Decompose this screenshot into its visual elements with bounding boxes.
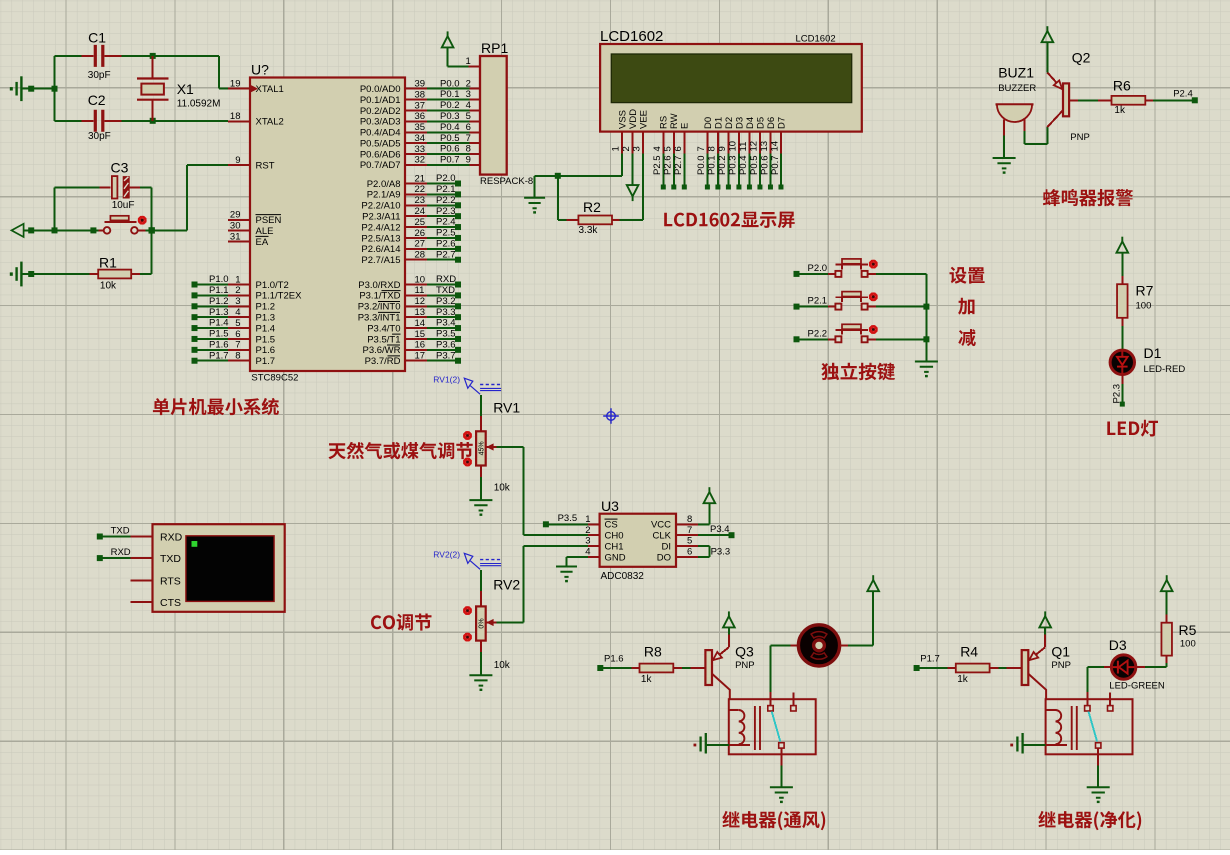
- svg-text:9: 9: [466, 155, 471, 166]
- svg-text:DO: DO: [657, 552, 671, 563]
- svg-text:12: 12: [749, 141, 760, 152]
- svg-text:17: 17: [415, 351, 426, 362]
- svg-text:P2.6/A14: P2.6/A14: [361, 244, 400, 255]
- svg-text:19: 19: [230, 79, 241, 90]
- svg-text:14: 14: [415, 318, 426, 329]
- svg-text:XTAL1: XTAL1: [256, 84, 284, 95]
- svg-text:P0.2: P0.2: [440, 100, 460, 111]
- svg-text:7: 7: [687, 525, 692, 536]
- svg-text:R6: R6: [1113, 78, 1131, 94]
- svg-text:1: 1: [611, 146, 622, 151]
- svg-text:P2.2: P2.2: [436, 195, 456, 206]
- svg-text:D1: D1: [1144, 345, 1162, 361]
- svg-text:P3.3: P3.3: [436, 307, 456, 318]
- svg-text:RESPACK-8: RESPACK-8: [480, 176, 533, 187]
- svg-text:P1.1: P1.1: [209, 285, 229, 296]
- svg-text:30pF: 30pF: [88, 70, 111, 81]
- svg-text:3: 3: [632, 146, 643, 151]
- svg-text:P3.3/INT1: P3.3/INT1: [358, 312, 401, 323]
- svg-text:X1: X1: [177, 81, 194, 97]
- svg-text:RST: RST: [256, 160, 275, 171]
- svg-text:P0.4/AD4: P0.4/AD4: [360, 128, 401, 139]
- svg-text:4: 4: [466, 100, 471, 111]
- svg-text:4: 4: [585, 547, 590, 558]
- svg-text:1k: 1k: [957, 674, 969, 685]
- svg-text:P1.2: P1.2: [256, 302, 276, 313]
- svg-text:XTAL2: XTAL2: [256, 117, 284, 128]
- svg-text:RV1: RV1: [493, 400, 520, 416]
- svg-text:P2.1: P2.1: [436, 184, 456, 195]
- svg-text:6: 6: [466, 122, 471, 133]
- svg-text:18: 18: [230, 111, 241, 122]
- svg-text:P3.1/TXD: P3.1/TXD: [359, 291, 400, 302]
- svg-text:30: 30: [230, 221, 241, 232]
- svg-text:RTS: RTS: [160, 576, 181, 588]
- svg-text:E: E: [680, 123, 691, 129]
- svg-text:3: 3: [235, 296, 240, 307]
- svg-text:P1.4: P1.4: [256, 323, 276, 334]
- svg-text:P3.4/T0: P3.4/T0: [367, 323, 400, 334]
- svg-text:P2.0: P2.0: [436, 173, 456, 184]
- svg-text:P1.5: P1.5: [209, 329, 229, 340]
- svg-text:BUZ1: BUZ1: [998, 64, 1034, 80]
- svg-text:31: 31: [230, 231, 241, 242]
- svg-text:10k: 10k: [494, 483, 511, 494]
- svg-text:P0.2: P0.2: [717, 155, 728, 175]
- svg-text:P1.6: P1.6: [209, 339, 229, 350]
- svg-text:P2.6: P2.6: [436, 238, 456, 249]
- svg-text:RV1(2): RV1(2): [433, 375, 460, 385]
- svg-text:D5: D5: [755, 117, 766, 129]
- svg-text:5: 5: [662, 146, 673, 151]
- svg-text:P3.4: P3.4: [436, 318, 456, 329]
- svg-text:6: 6: [673, 146, 684, 151]
- svg-text:28: 28: [415, 250, 426, 261]
- svg-text:5: 5: [466, 111, 471, 122]
- svg-text:P1.1/T2EX: P1.1/T2EX: [256, 291, 303, 302]
- svg-text:5: 5: [687, 536, 692, 547]
- svg-text:RV2: RV2: [493, 577, 520, 593]
- svg-text:100: 100: [1180, 639, 1196, 650]
- svg-text:P1.7: P1.7: [256, 356, 276, 367]
- svg-text:C2: C2: [88, 92, 106, 108]
- svg-text:D2: D2: [724, 117, 735, 129]
- svg-text:P0.7: P0.7: [770, 155, 781, 175]
- svg-text:21: 21: [415, 173, 426, 184]
- svg-text:12: 12: [415, 296, 426, 307]
- svg-text:LED-RED: LED-RED: [1144, 364, 1186, 375]
- svg-text:Q2: Q2: [1072, 50, 1091, 66]
- svg-text:1k: 1k: [641, 674, 653, 685]
- svg-text:PNP: PNP: [1051, 660, 1071, 671]
- svg-text:P0.2/AD2: P0.2/AD2: [360, 106, 401, 117]
- svg-text:1: 1: [585, 514, 590, 525]
- svg-text:P1.3: P1.3: [209, 307, 229, 318]
- svg-text:STC89C52: STC89C52: [251, 373, 298, 384]
- svg-text:P3.2: P3.2: [436, 296, 456, 307]
- svg-text:U3: U3: [601, 498, 619, 514]
- svg-text:8: 8: [707, 146, 718, 151]
- svg-text:33: 33: [415, 144, 426, 155]
- svg-text:37: 37: [415, 100, 426, 111]
- svg-text:VSS: VSS: [618, 110, 629, 129]
- svg-text:P0.0: P0.0: [696, 155, 707, 175]
- svg-text:P2.3: P2.3: [1111, 384, 1122, 404]
- svg-text:P0.1/AD1: P0.1/AD1: [360, 95, 401, 106]
- svg-text:P2.5/A13: P2.5/A13: [361, 233, 400, 244]
- svg-text:P2.7: P2.7: [673, 155, 684, 175]
- svg-text:P2.6: P2.6: [663, 155, 674, 175]
- svg-text:D3: D3: [734, 117, 745, 129]
- svg-text:TXD: TXD: [160, 553, 181, 565]
- svg-text:LCD1602: LCD1602: [600, 28, 663, 45]
- svg-text:P1.7: P1.7: [920, 654, 940, 665]
- svg-text:2: 2: [235, 285, 240, 296]
- svg-text:P1.5: P1.5: [256, 334, 276, 345]
- svg-text:P1.6: P1.6: [604, 654, 624, 665]
- svg-text:P2.7: P2.7: [436, 249, 456, 260]
- svg-text:2: 2: [585, 525, 590, 536]
- svg-text:U?: U?: [251, 62, 269, 78]
- svg-text:9: 9: [717, 146, 728, 151]
- svg-text:32: 32: [415, 155, 426, 166]
- svg-text:P1.7: P1.7: [209, 350, 229, 361]
- svg-text:P2.4: P2.4: [436, 217, 456, 228]
- svg-text:36: 36: [415, 111, 426, 122]
- svg-text:P0.6: P0.6: [759, 155, 770, 175]
- svg-text:5: 5: [235, 318, 240, 329]
- svg-text:10: 10: [728, 141, 739, 152]
- svg-text:RW: RW: [669, 113, 680, 129]
- svg-text:13: 13: [415, 307, 426, 318]
- svg-text:P3.0/RXD: P3.0/RXD: [358, 280, 400, 291]
- svg-text:P2.1: P2.1: [808, 296, 828, 307]
- svg-text:8: 8: [687, 514, 692, 525]
- svg-text:RV2(2): RV2(2): [433, 550, 460, 560]
- svg-text:C3: C3: [111, 159, 129, 175]
- svg-text:PNP: PNP: [735, 660, 755, 671]
- svg-text:P3.5: P3.5: [558, 513, 578, 524]
- svg-text:1k: 1k: [1114, 105, 1126, 116]
- svg-text:8: 8: [235, 351, 240, 362]
- svg-text:GND: GND: [605, 552, 626, 563]
- svg-text:1: 1: [466, 56, 471, 67]
- svg-text:P0.3/AD3: P0.3/AD3: [360, 117, 401, 128]
- svg-text:D6: D6: [766, 117, 777, 129]
- svg-text:4: 4: [235, 307, 240, 318]
- svg-text:ADC0832: ADC0832: [601, 571, 645, 582]
- svg-text:P3.5/T1: P3.5/T1: [367, 334, 400, 345]
- svg-text:11: 11: [738, 142, 749, 152]
- svg-text:P2.0: P2.0: [808, 263, 828, 274]
- svg-text:34: 34: [415, 133, 426, 144]
- svg-text:RS: RS: [659, 116, 670, 129]
- svg-text:CLK: CLK: [653, 531, 672, 542]
- svg-text:3.3k: 3.3k: [579, 225, 599, 236]
- svg-text:P3.4: P3.4: [710, 524, 730, 535]
- svg-text:P2.2: P2.2: [808, 328, 828, 339]
- svg-text:P0.0/AD0: P0.0/AD0: [360, 84, 401, 95]
- svg-text:VDD: VDD: [628, 109, 639, 129]
- svg-text:38: 38: [415, 89, 426, 100]
- svg-text:R1: R1: [99, 255, 117, 271]
- svg-text:6: 6: [235, 329, 240, 340]
- svg-text:3: 3: [585, 536, 590, 547]
- svg-text:P2.7/A15: P2.7/A15: [361, 255, 400, 266]
- svg-text:LED-GREEN: LED-GREEN: [1109, 681, 1165, 692]
- svg-text:22: 22: [415, 184, 426, 195]
- svg-text:VCC: VCC: [651, 520, 671, 531]
- svg-text:10k: 10k: [494, 660, 511, 671]
- svg-text:P1.0: P1.0: [209, 274, 229, 285]
- svg-text:CTS: CTS: [160, 597, 181, 609]
- svg-text:P0.6/AD6: P0.6/AD6: [360, 149, 401, 160]
- svg-text:P2.0/A8: P2.0/A8: [367, 179, 401, 190]
- svg-text:26: 26: [415, 228, 426, 239]
- svg-text:ALE: ALE: [256, 226, 274, 237]
- svg-text:P1.4: P1.4: [209, 318, 229, 329]
- svg-text:P0.7/AD7: P0.7/AD7: [360, 160, 401, 171]
- svg-text:3: 3: [466, 89, 471, 100]
- svg-text:R7: R7: [1136, 283, 1154, 299]
- svg-text:10k: 10k: [100, 280, 117, 291]
- svg-text:P3.6: P3.6: [436, 339, 456, 350]
- svg-text:7: 7: [466, 133, 471, 144]
- svg-text:R4: R4: [960, 643, 978, 659]
- svg-text:RXD: RXD: [160, 532, 183, 544]
- svg-text:7: 7: [696, 146, 707, 151]
- svg-text:R2: R2: [583, 199, 601, 215]
- svg-text:8: 8: [466, 144, 471, 155]
- svg-text:1: 1: [235, 274, 240, 285]
- svg-text:0%: 0%: [478, 618, 485, 628]
- svg-text:4: 4: [652, 146, 663, 151]
- svg-text:P3.7/RD: P3.7/RD: [365, 356, 401, 367]
- svg-text:P1.6: P1.6: [256, 345, 276, 356]
- svg-text:TXD: TXD: [436, 285, 455, 296]
- svg-text:P2.1/A9: P2.1/A9: [367, 190, 401, 201]
- svg-text:P2.5: P2.5: [652, 155, 663, 175]
- svg-text:11.0592M: 11.0592M: [177, 99, 221, 110]
- svg-text:14: 14: [770, 141, 781, 152]
- svg-text:100: 100: [1136, 300, 1152, 311]
- svg-text:P2.4/A12: P2.4/A12: [361, 222, 400, 233]
- svg-text:D7: D7: [776, 117, 787, 129]
- svg-text:25: 25: [415, 217, 426, 228]
- svg-text:2: 2: [466, 78, 471, 89]
- svg-text:P2.3/A11: P2.3/A11: [362, 211, 400, 222]
- svg-text:P1.3: P1.3: [256, 312, 276, 323]
- svg-text:C1: C1: [88, 30, 106, 46]
- svg-text:EA: EA: [256, 237, 269, 248]
- svg-text:LCD1602: LCD1602: [796, 34, 836, 45]
- svg-text:7: 7: [235, 340, 240, 351]
- svg-text:D3: D3: [1109, 637, 1127, 653]
- svg-text:P2.5: P2.5: [436, 228, 456, 239]
- svg-text:RXD: RXD: [436, 274, 456, 285]
- svg-text:P0.5: P0.5: [440, 133, 460, 144]
- svg-text:29: 29: [230, 210, 241, 221]
- svg-text:RP1: RP1: [481, 40, 508, 56]
- svg-text:P3.2/INT0: P3.2/INT0: [358, 302, 401, 313]
- svg-text:DI: DI: [662, 541, 672, 552]
- svg-text:P0.4: P0.4: [738, 155, 749, 175]
- svg-text:2: 2: [621, 146, 632, 151]
- svg-text:Q3: Q3: [735, 643, 754, 659]
- svg-text:P0.5/AD5: P0.5/AD5: [360, 138, 401, 149]
- svg-text:CS: CS: [605, 520, 618, 531]
- svg-text:P0.5: P0.5: [749, 155, 760, 175]
- svg-text:CH1: CH1: [605, 541, 624, 552]
- svg-text:R8: R8: [644, 643, 662, 659]
- svg-text:45%: 45%: [478, 441, 485, 455]
- svg-text:16: 16: [415, 340, 426, 351]
- svg-text:P2.3: P2.3: [436, 206, 456, 217]
- svg-text:D1: D1: [713, 117, 724, 129]
- svg-text:D4: D4: [745, 117, 756, 129]
- svg-text:P2.4: P2.4: [1173, 89, 1193, 100]
- svg-text:P0.3: P0.3: [440, 111, 460, 122]
- svg-text:9: 9: [235, 155, 240, 166]
- svg-text:15: 15: [415, 329, 426, 340]
- svg-text:P0.4: P0.4: [440, 122, 460, 133]
- svg-text:30pF: 30pF: [88, 131, 111, 142]
- svg-text:RXD: RXD: [111, 547, 131, 558]
- svg-text:P0.1: P0.1: [440, 89, 460, 100]
- svg-text:23: 23: [415, 195, 426, 206]
- svg-text:P3.5: P3.5: [436, 329, 456, 340]
- svg-text:Q1: Q1: [1051, 643, 1070, 659]
- svg-text:10uF: 10uF: [112, 200, 135, 211]
- svg-text:PNP: PNP: [1070, 132, 1090, 143]
- svg-text:35: 35: [415, 122, 426, 133]
- svg-text:D0: D0: [703, 117, 714, 129]
- svg-text:PSEN: PSEN: [256, 215, 282, 226]
- svg-text:6: 6: [687, 547, 692, 558]
- svg-text:P3.6/WR: P3.6/WR: [362, 345, 400, 356]
- svg-text:P3.7: P3.7: [436, 350, 456, 361]
- svg-text:VEE: VEE: [639, 110, 650, 129]
- svg-text:P2.2/A10: P2.2/A10: [361, 201, 400, 212]
- svg-text:24: 24: [415, 206, 426, 217]
- svg-text:P0.7: P0.7: [440, 155, 460, 166]
- svg-text:P1.0/T2: P1.0/T2: [256, 280, 289, 291]
- svg-text:R5: R5: [1179, 622, 1197, 638]
- svg-text:P0.3: P0.3: [728, 155, 739, 175]
- svg-text:P0.6: P0.6: [440, 144, 460, 155]
- svg-text:P0.1: P0.1: [707, 155, 718, 175]
- svg-text:P1.2: P1.2: [209, 296, 229, 307]
- svg-text:13: 13: [759, 141, 770, 152]
- svg-text:39: 39: [415, 79, 426, 90]
- svg-text:10: 10: [415, 274, 426, 285]
- svg-text:BUZZER: BUZZER: [998, 83, 1036, 94]
- svg-text:P0.0: P0.0: [440, 78, 460, 89]
- svg-text:CH0: CH0: [605, 531, 624, 542]
- svg-text:P3.3: P3.3: [711, 547, 731, 558]
- svg-text:27: 27: [415, 239, 426, 250]
- svg-text:TXD: TXD: [111, 526, 130, 537]
- svg-text:11: 11: [415, 285, 425, 296]
